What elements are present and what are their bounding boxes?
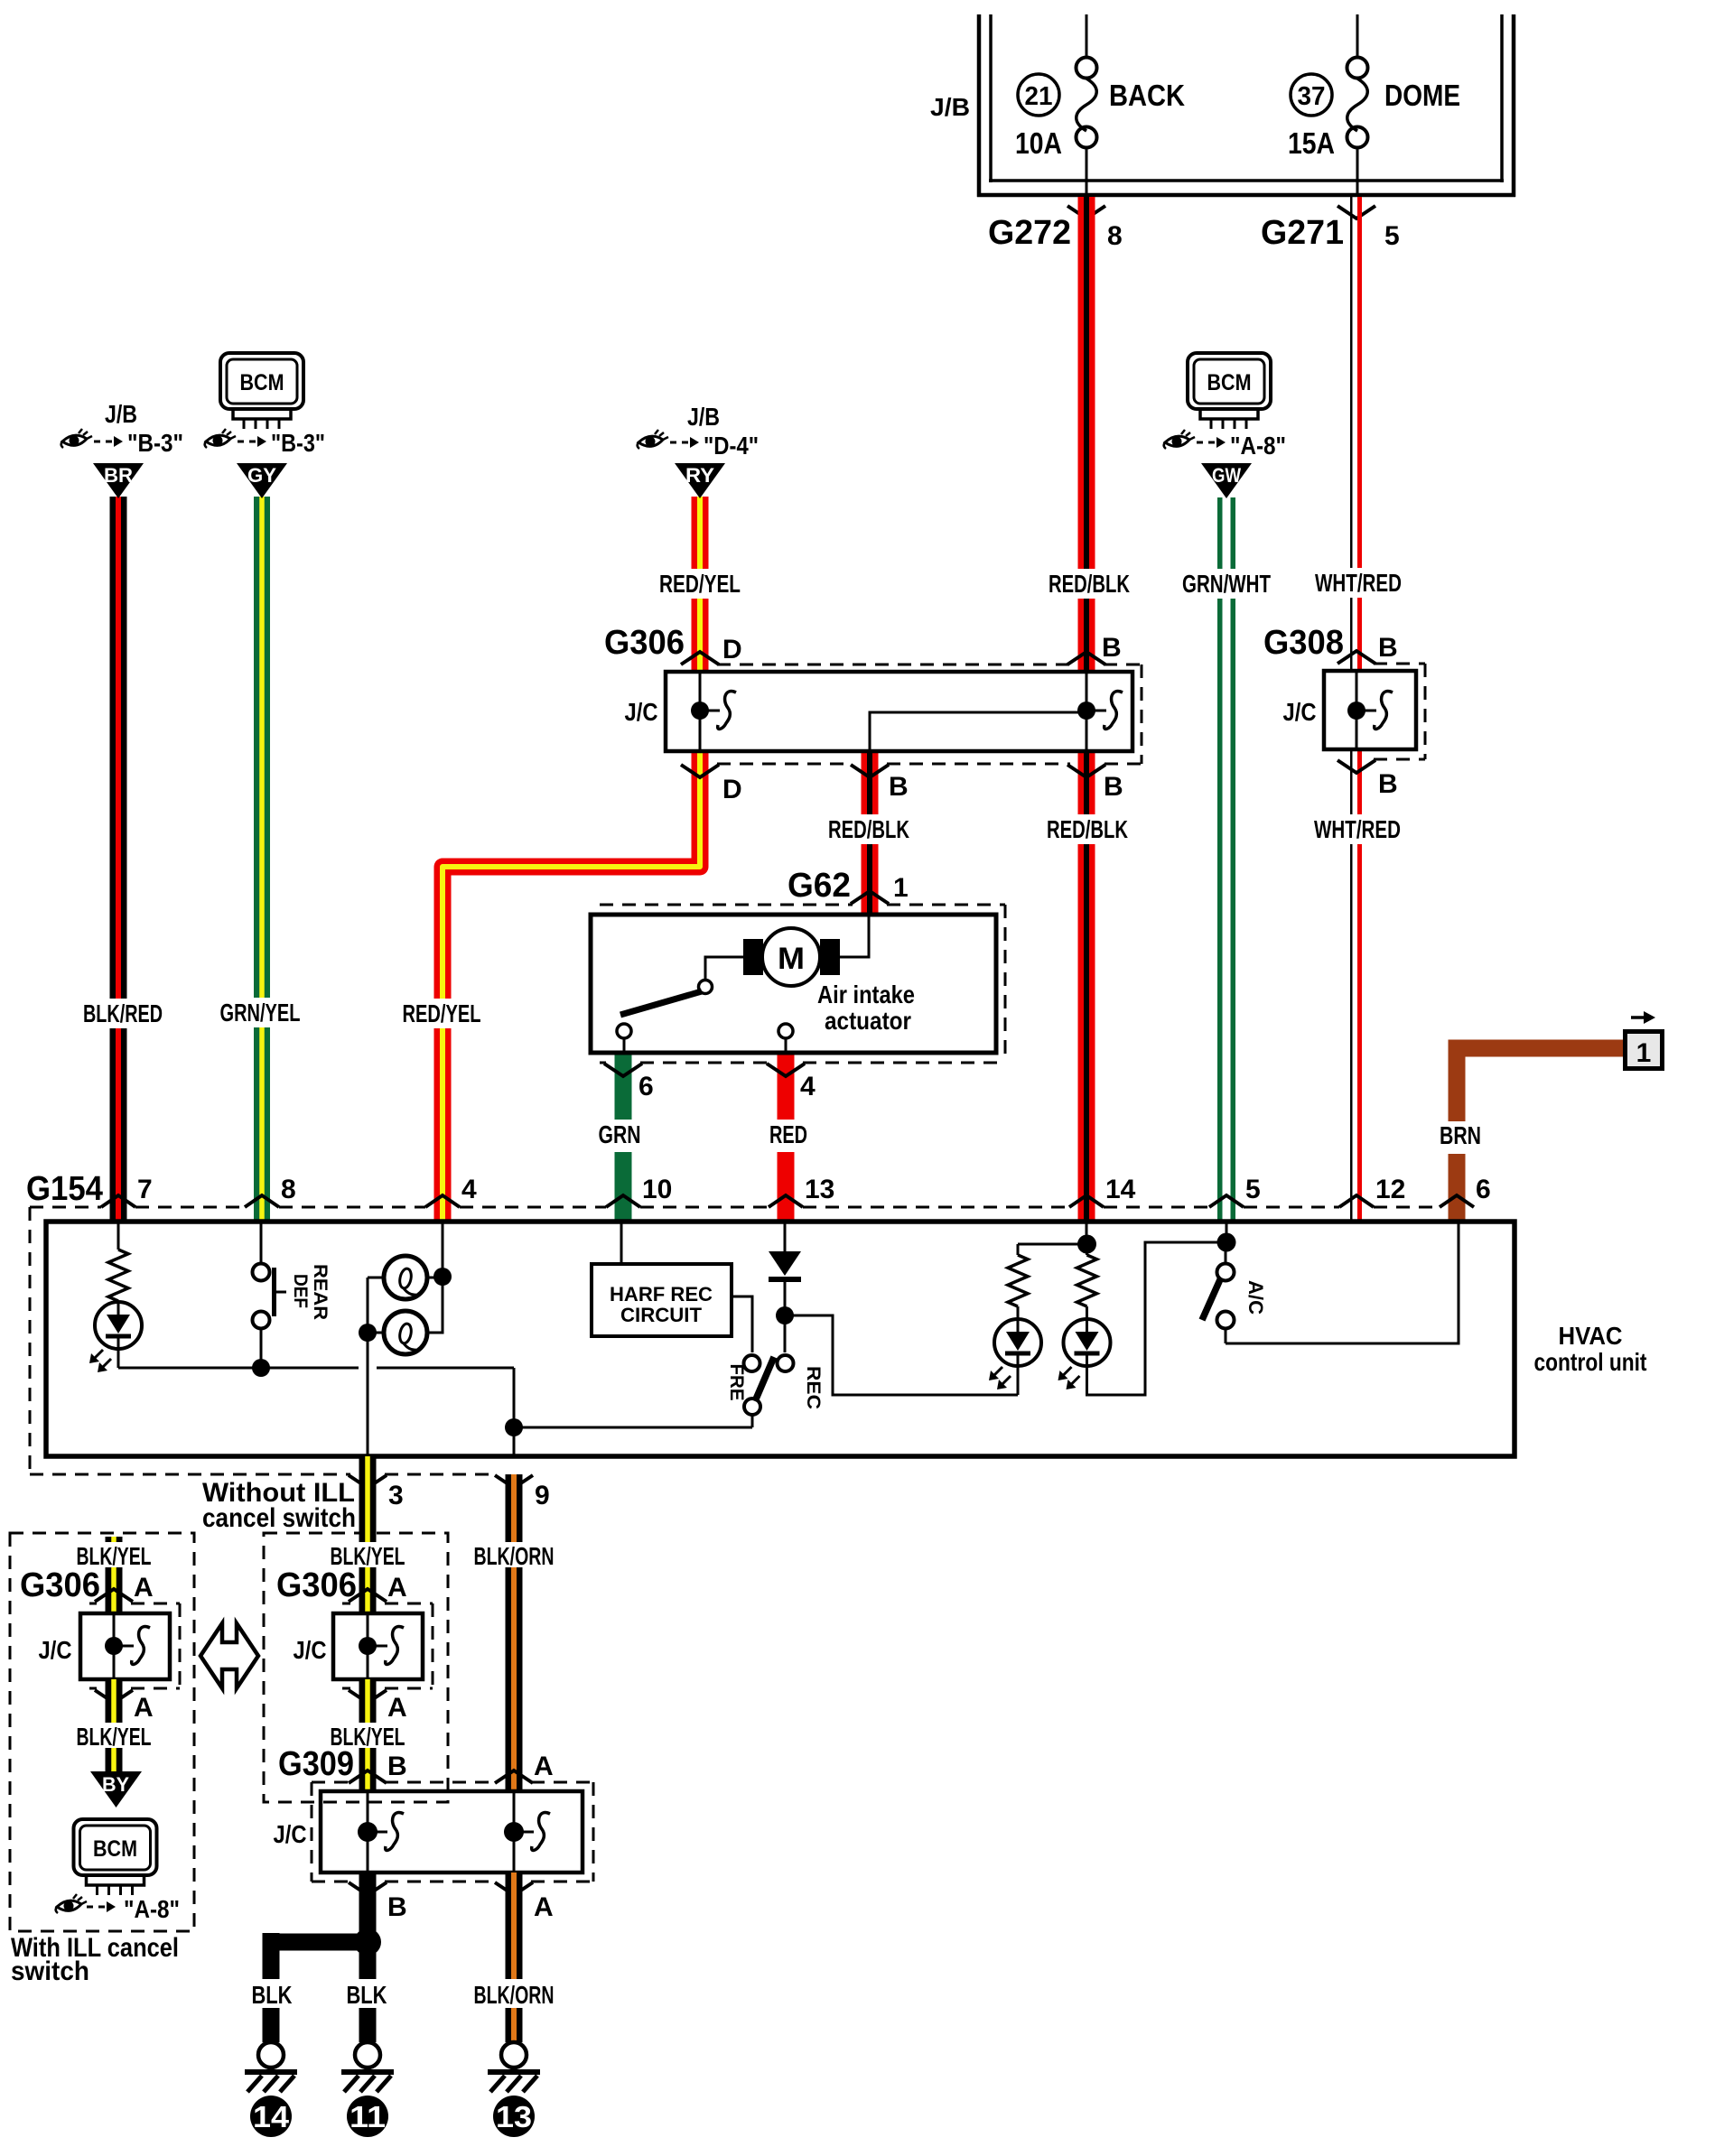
svg-text:Air intake: Air intake [817, 980, 915, 1008]
svg-text:WHT/RED: WHT/RED [1314, 815, 1401, 843]
svg-text:BLK/RED: BLK/RED [83, 999, 163, 1027]
svg-text:GRN/YEL: GRN/YEL [220, 999, 301, 1027]
svg-text:CIRCUIT: CIRCUIT [620, 1304, 703, 1326]
svg-text:G271: G271 [1261, 214, 1344, 252]
svg-text:FRE: FRE [726, 1364, 747, 1401]
svg-text:RED/BLK: RED/BLK [1049, 570, 1130, 598]
svg-text:J/C: J/C [1283, 698, 1317, 726]
svg-text:"A-8": "A-8" [124, 1895, 180, 1923]
svg-text:G272: G272 [988, 214, 1071, 252]
svg-text:B: B [1378, 769, 1398, 799]
svg-text:G309: G309 [278, 1745, 354, 1783]
svg-text:RED/YEL: RED/YEL [403, 999, 481, 1027]
svg-text:D: D [722, 775, 742, 804]
svg-text:J/B: J/B [105, 400, 137, 428]
svg-text:G308: G308 [1263, 624, 1344, 662]
svg-text:14: 14 [1105, 1175, 1136, 1204]
svg-text:1: 1 [1636, 1038, 1652, 1068]
svg-text:switch: switch [11, 1956, 89, 1986]
svg-text:B: B [387, 1892, 407, 1922]
svg-text:BLK: BLK [252, 1981, 293, 2009]
svg-text:A: A [534, 1752, 554, 1781]
svg-text:M: M [778, 942, 805, 976]
svg-text:RED: RED [769, 1120, 807, 1148]
svg-text:BLK: BLK [347, 1981, 387, 2009]
svg-text:GW: GW [1212, 464, 1241, 487]
svg-text:6: 6 [1476, 1175, 1491, 1204]
svg-text:D: D [722, 635, 742, 664]
svg-text:HVAC: HVAC [1559, 1322, 1623, 1350]
svg-text:7: 7 [137, 1175, 153, 1204]
svg-text:B: B [889, 772, 909, 802]
svg-text:RED/BLK: RED/BLK [1047, 815, 1128, 843]
svg-text:BCM: BCM [1207, 370, 1252, 395]
svg-text:GRN/WHT: GRN/WHT [1182, 570, 1271, 598]
svg-text:21: 21 [1025, 82, 1053, 111]
svg-text:8: 8 [1107, 221, 1123, 251]
svg-text:J/C: J/C [294, 1636, 327, 1664]
svg-text:WHT/RED: WHT/RED [1315, 569, 1402, 597]
svg-text:A: A [134, 1573, 154, 1603]
svg-text:"B-3": "B-3" [127, 429, 183, 457]
svg-text:10: 10 [642, 1175, 672, 1204]
svg-text:G306: G306 [276, 1566, 357, 1604]
svg-text:A: A [387, 1573, 407, 1603]
svg-text:A: A [134, 1693, 154, 1723]
svg-text:"B-3": "B-3" [271, 429, 325, 457]
svg-text:15A: 15A [1288, 126, 1335, 160]
svg-text:J/B: J/B [687, 403, 720, 431]
svg-text:G154: G154 [26, 1170, 103, 1208]
svg-text:4: 4 [461, 1175, 477, 1204]
svg-text:13: 13 [805, 1175, 834, 1204]
svg-text:GY: GY [247, 464, 276, 487]
svg-text:A: A [534, 1892, 554, 1922]
svg-text:J/B: J/B [930, 93, 970, 121]
svg-text:control unit: control unit [1534, 1348, 1647, 1376]
svg-text:10A: 10A [1015, 126, 1062, 160]
svg-text:"A-8": "A-8" [1230, 432, 1286, 460]
svg-text:BLK/ORN: BLK/ORN [474, 1542, 555, 1570]
svg-text:BCM: BCM [93, 1836, 137, 1862]
svg-text:"D-4": "D-4" [704, 432, 759, 460]
svg-text:BACK: BACK [1109, 79, 1185, 112]
svg-text:BRN: BRN [1440, 1121, 1481, 1149]
svg-text:BLK/YEL: BLK/YEL [77, 1723, 152, 1751]
svg-text:B: B [1378, 633, 1398, 663]
svg-text:BLK/ORN: BLK/ORN [474, 1981, 555, 2009]
svg-text:J/C: J/C [625, 698, 658, 726]
svg-text:DOME: DOME [1384, 79, 1460, 112]
svg-text:cancel switch: cancel switch [202, 1503, 356, 1533]
svg-text:G306: G306 [20, 1566, 100, 1604]
svg-text:8: 8 [281, 1175, 296, 1204]
svg-text:G306: G306 [604, 624, 685, 662]
svg-text:5: 5 [1245, 1175, 1261, 1204]
svg-text:REAR: REAR [310, 1264, 331, 1320]
svg-text:BR: BR [104, 464, 133, 487]
svg-text:B: B [1102, 633, 1122, 663]
svg-text:DEF: DEF [290, 1274, 311, 1308]
svg-text:14: 14 [253, 2100, 290, 2133]
svg-text:1: 1 [893, 873, 909, 903]
svg-text:BCM: BCM [240, 370, 284, 395]
svg-text:12: 12 [1375, 1175, 1405, 1204]
svg-text:REC: REC [803, 1366, 824, 1409]
svg-text:RED/BLK: RED/BLK [828, 815, 909, 843]
svg-text:BY: BY [102, 1773, 129, 1796]
svg-text:HARF REC: HARF REC [610, 1283, 713, 1306]
svg-text:G62: G62 [788, 867, 851, 905]
svg-text:3: 3 [388, 1481, 404, 1510]
svg-text:11: 11 [350, 2100, 386, 2133]
svg-text:RED/YEL: RED/YEL [659, 570, 741, 598]
svg-text:13: 13 [496, 2100, 532, 2133]
svg-text:37: 37 [1298, 82, 1326, 111]
svg-text:RY: RY [685, 464, 714, 487]
svg-text:A/C: A/C [1244, 1280, 1267, 1315]
svg-text:6: 6 [638, 1072, 654, 1101]
svg-text:4: 4 [800, 1072, 816, 1101]
svg-text:B: B [1104, 772, 1123, 802]
svg-text:actuator: actuator [825, 1007, 911, 1035]
svg-text:A: A [387, 1693, 407, 1723]
svg-text:GRN: GRN [599, 1120, 641, 1148]
svg-text:J/C: J/C [39, 1636, 72, 1664]
svg-text:5: 5 [1384, 221, 1400, 251]
svg-text:B: B [387, 1752, 407, 1781]
svg-text:9: 9 [535, 1481, 550, 1510]
svg-text:J/C: J/C [274, 1820, 307, 1848]
